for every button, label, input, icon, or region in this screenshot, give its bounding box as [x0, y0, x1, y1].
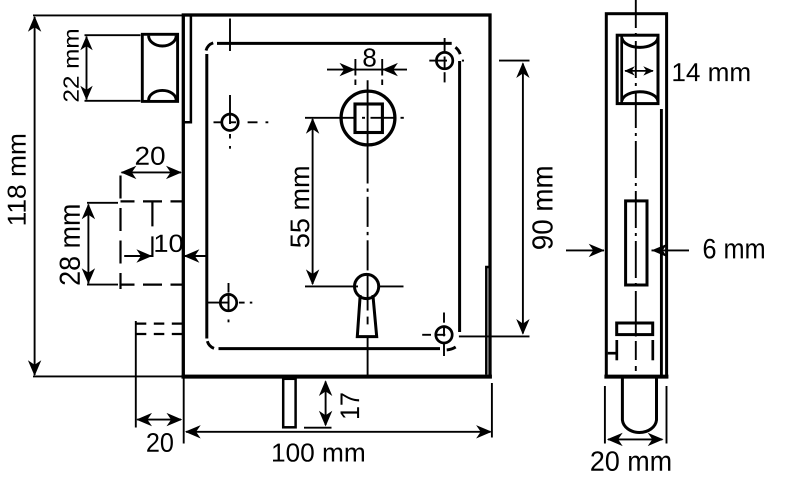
screw hole bottom-left	[220, 294, 236, 310]
hidden slot lower-left	[136, 321, 182, 428]
side latch detail rect	[617, 323, 653, 335]
dim 6 mm	[566, 249, 604, 251]
dim 28 mm	[87, 203, 118, 285]
dim 20 bottom-left	[137, 419, 181, 421]
bolt tongue side view	[622, 377, 656, 432]
dim 20 mm side	[605, 386, 667, 444]
faceplate edge line top-left	[185, 16, 191, 122]
dim 118 mm	[33, 15, 182, 376]
screw hole top-left	[222, 114, 238, 130]
roller bolt side view	[617, 35, 658, 103]
inner plate outline	[207, 43, 460, 348]
dim 17	[325, 382, 327, 426]
side view case outline	[604, 14, 668, 377]
faceplate edge line bottom-right	[486, 267, 489, 375]
bottom tab	[283, 379, 295, 428]
side slot	[626, 201, 647, 285]
side faceplate inner line	[660, 109, 663, 375]
dim 90 mm	[459, 61, 530, 337]
screw hole top-right	[436, 52, 452, 68]
screw hole bottom-right	[436, 327, 452, 343]
side view centerline	[635, 0, 637, 371]
keyhole	[355, 274, 379, 336]
dashed strike plate box	[121, 176, 183, 290]
dim 100 mm	[186, 431, 491, 433]
dim 22 mm	[85, 35, 141, 101]
dim 20 top	[122, 171, 182, 173]
keyhole horizontal extension line	[305, 285, 404, 287]
vertical centerline through spindle and keyhole	[367, 80, 369, 375]
dim 8	[327, 69, 407, 71]
roller bolt front view	[142, 34, 177, 101]
dim 10	[124, 255, 152, 257]
horizontal centerline through spindle	[305, 117, 404, 119]
spindle square hole	[355, 104, 382, 133]
lock case outline front view	[182, 15, 492, 377]
hidden edges below latch detail	[608, 340, 653, 360]
inner plate corner dashes	[206, 43, 460, 350]
dim 14 mm	[625, 70, 653, 72]
spindle hub circle	[341, 91, 395, 145]
dim 55 mm	[312, 119, 314, 284]
